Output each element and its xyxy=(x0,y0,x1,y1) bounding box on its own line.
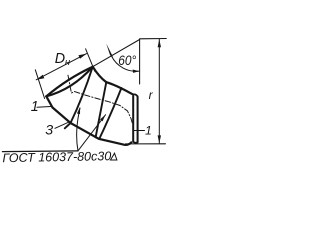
svg-text:н: н xyxy=(65,57,71,68)
site-weld triangle symbol xyxy=(111,153,117,160)
right half-segment top cap xyxy=(133,94,137,96)
centre line (dash-dot neutral axis of elbow) xyxy=(68,75,133,124)
dimension line D_n xyxy=(36,54,86,80)
arrowhead r top xyxy=(158,39,161,47)
extension line right for D_n xyxy=(86,49,95,72)
leader of label 1 (left) xyxy=(37,106,51,109)
svg-text:1: 1 xyxy=(145,124,152,138)
svg-text:ГОСТ 16037-80с30: ГОСТ 16037-80с30 xyxy=(2,149,111,165)
arrowhead r bottom xyxy=(158,135,161,143)
arrowhead right of D_n xyxy=(79,54,87,59)
arrowhead on W1 xyxy=(77,107,80,114)
weld seam W1 (between segments 2 and 3) xyxy=(65,67,93,129)
svg-text:60°: 60° xyxy=(118,52,136,68)
weld seam W3 (between segment 4 and right half-segment) xyxy=(100,88,122,138)
60-degree angle arc xyxy=(112,56,140,71)
pipe mouth ellipse lower arc xyxy=(46,67,92,97)
arrowhead on W2 xyxy=(100,115,106,122)
arrowhead of arc at slanted side (tangential, overshooting) xyxy=(106,44,113,57)
weld seam W2 (between segments 3 and 4) xyxy=(96,82,107,137)
outer boundary curve of elbow xyxy=(93,67,134,95)
extension line left for D_n xyxy=(35,70,44,99)
right half-segment bottom cap xyxy=(133,142,137,143)
pipe mouth ellipse upper arc xyxy=(46,67,92,97)
dimension line r (vertical) xyxy=(158,39,160,143)
weld designation leader branch to W1 xyxy=(77,108,80,151)
60-degree vertical side line xyxy=(139,40,141,85)
svg-text:3: 3 xyxy=(45,123,53,139)
weld designation leader branch to W2 xyxy=(78,115,106,151)
label D_n xyxy=(55,51,71,68)
leader of label 3 xyxy=(55,122,70,129)
leader of label 1 (right) xyxy=(134,130,145,132)
bottom extension line xyxy=(126,143,166,145)
arrowhead of arc at vertical side xyxy=(133,70,140,73)
arrowhead left of D_n xyxy=(36,75,44,80)
right half-segment right end-face line xyxy=(137,97,139,143)
weld designation shelf line (overline of caption) xyxy=(2,150,78,153)
right half-segment left weld line xyxy=(132,96,134,142)
svg-text:D: D xyxy=(55,51,65,67)
svg-text:1: 1 xyxy=(31,99,39,115)
inner boundary chord chain of elbow xyxy=(46,96,131,145)
60-degree slanted side line (extension of face line) xyxy=(93,40,140,67)
top horizontal extension line xyxy=(140,38,167,40)
